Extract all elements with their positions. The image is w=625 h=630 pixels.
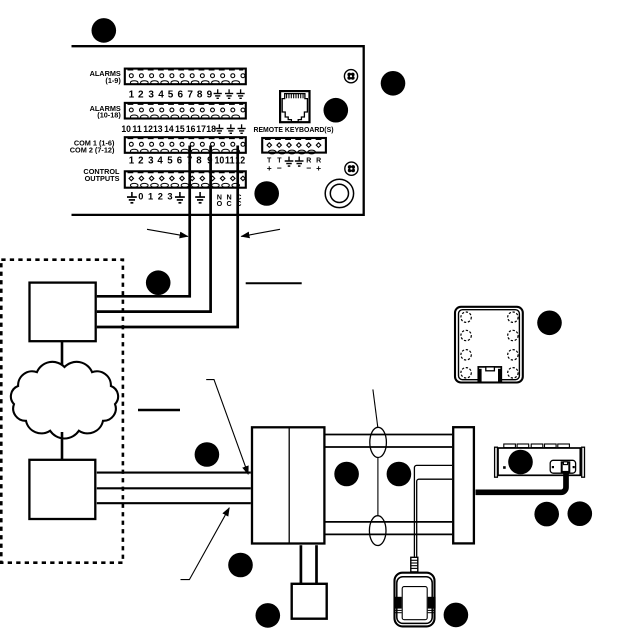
link cloud to box2	[61, 432, 64, 460]
callout balloon 6	[195, 442, 220, 467]
svg-text:(1-9): (1-9)	[105, 76, 121, 85]
svg-text:6: 6	[178, 90, 184, 101]
svg-text:8: 8	[197, 90, 203, 101]
svg-text:7: 7	[187, 90, 193, 101]
svg-text:REMOTE KEYBOARD(S): REMOTE KEYBOARD(S)	[253, 127, 333, 134]
RJ keyboard jack	[280, 91, 309, 122]
terminal block ALARMS 10-18	[125, 103, 246, 119]
svg-text:11: 11	[225, 155, 235, 166]
link box1 to cloud	[61, 342, 64, 367]
pin numbers 1-9	[129, 90, 213, 101]
control outputs pin labels	[127, 192, 242, 208]
cable box2 to unit 3	[97, 502, 251, 504]
wire from COM terminal 12	[97, 146, 238, 328]
pin numbers 10-18	[121, 124, 216, 135]
svg-text:2: 2	[138, 155, 143, 166]
svg-text:2: 2	[138, 90, 144, 101]
pin numbers COM 1-12	[129, 155, 245, 166]
cable box2 to unit 2	[97, 487, 251, 489]
svg-text:+: +	[316, 163, 321, 173]
label ALARMS (10-18)	[90, 104, 122, 120]
svg-text:4: 4	[158, 90, 164, 101]
svg-text:13: 13	[153, 124, 163, 135]
terminal block ALARMS 1-9	[125, 69, 246, 85]
svg-text:(10-18): (10-18)	[97, 111, 121, 120]
keypad junction box	[455, 307, 523, 383]
short label line A	[246, 282, 302, 284]
cable loop lower	[369, 516, 386, 546]
svg-text:9: 9	[207, 90, 213, 101]
svg-text:−: −	[277, 163, 282, 173]
svg-text:1: 1	[129, 155, 135, 166]
callout balloon 4	[254, 181, 279, 206]
svg-text:10: 10	[215, 155, 225, 166]
callout balloon 13	[444, 603, 469, 628]
BNC connector	[325, 179, 353, 207]
svg-text:COM 2 (7-12): COM 2 (7-12)	[70, 145, 115, 154]
leader arrow to cable 1	[206, 380, 248, 475]
svg-text:C: C	[226, 199, 231, 208]
svg-text:5: 5	[168, 90, 174, 101]
main unit left box	[252, 427, 324, 543]
svg-text:O: O	[217, 199, 223, 208]
callout balloon 5	[146, 270, 171, 295]
svg-text:16: 16	[186, 124, 196, 135]
svg-text:6: 6	[177, 155, 183, 166]
svg-text:18: 18	[206, 124, 216, 135]
label CONTROL OUTPUTS	[83, 167, 120, 183]
callout balloon 15	[255, 603, 280, 628]
svg-text:1: 1	[129, 90, 135, 101]
remote keyboard terminal block	[262, 138, 326, 154]
rear panel outline	[72, 46, 364, 215]
keyboard thick cable	[476, 471, 567, 492]
svg-text:14: 14	[164, 124, 174, 135]
callout balloon 10	[537, 311, 562, 336]
wire from COM terminal 7	[97, 146, 190, 297]
main unit right bar	[453, 427, 474, 543]
box lower (local unit)	[29, 460, 95, 519]
ground pins row 2	[215, 124, 245, 133]
terminal block COM1/COM2	[125, 137, 246, 153]
svg-text:3: 3	[167, 192, 172, 202]
svg-text:OUTPUTS: OUTPUTS	[85, 174, 120, 183]
leader to cable loops	[373, 389, 378, 427]
svg-text:12: 12	[143, 124, 153, 135]
callout balloon 8	[387, 462, 412, 487]
cable box2 to unit 1	[97, 472, 251, 474]
svg-text:8: 8	[196, 155, 202, 166]
callout balloon 3	[324, 98, 349, 123]
callout balloon 14	[228, 553, 253, 578]
svg-text:10: 10	[121, 124, 131, 135]
callout balloon 1	[92, 18, 117, 43]
svg-text:11: 11	[132, 124, 142, 135]
mic cable	[414, 465, 452, 557]
small box	[292, 584, 327, 619]
screw bottom	[345, 162, 358, 175]
svg-text:−: −	[306, 163, 311, 173]
svg-text:4: 4	[157, 155, 163, 166]
ground pins row 1	[214, 89, 245, 98]
svg-text:2: 2	[158, 192, 163, 202]
svg-text:3: 3	[148, 155, 154, 166]
callout balloon 12	[568, 501, 593, 526]
leader arrow right to wires	[241, 229, 280, 236]
short label line B	[138, 409, 180, 412]
wire from COM terminal 9	[97, 146, 211, 312]
rail top	[326, 435, 453, 448]
box upper (remote unit)	[30, 283, 96, 342]
svg-text:1: 1	[148, 192, 153, 202]
label ALARMS (1-9)	[90, 69, 122, 85]
svg-text:15: 15	[175, 124, 185, 135]
label REMOTE KEYBOARD(S)	[253, 127, 333, 134]
callout balloon 9	[508, 450, 533, 475]
leader arrow to cable 3	[181, 508, 230, 580]
legs to small box	[301, 545, 317, 583]
label COM 1 / COM 2	[70, 139, 115, 155]
svg-text:17: 17	[196, 124, 206, 135]
rail bottom	[326, 522, 453, 535]
dashed enclosure	[1, 260, 123, 563]
leader arrow left to wires	[147, 229, 188, 236]
callout balloon 7	[334, 462, 359, 487]
mic pendant body	[394, 573, 436, 627]
svg-text:+: +	[267, 163, 272, 173]
mic strain relief	[410, 557, 418, 572]
svg-text:3: 3	[148, 90, 154, 101]
callout balloon 11	[534, 502, 559, 527]
remote keyboard pin labels	[267, 157, 321, 173]
svg-text:0: 0	[138, 192, 143, 202]
callout balloon 2	[381, 71, 406, 96]
terminal block CONTROL OUTPUTS	[125, 171, 246, 187]
svg-text:5: 5	[167, 155, 173, 166]
network cloud	[11, 362, 118, 439]
screw top	[344, 70, 357, 83]
cable loop upper	[370, 427, 387, 457]
cable tie line	[377, 458, 379, 516]
keyboard rear unit	[495, 444, 585, 477]
